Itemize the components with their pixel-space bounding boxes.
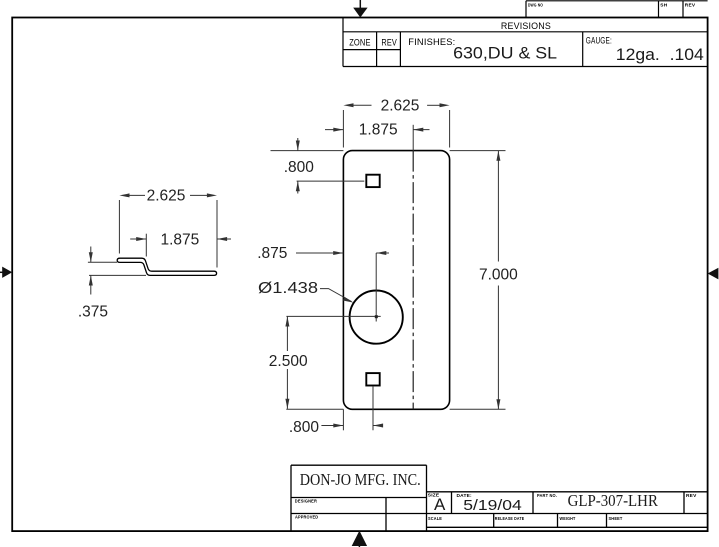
svg-text:.800: .800 (289, 419, 320, 436)
circle center dot (375, 315, 378, 318)
svg-text:PART NO.: PART NO. (537, 493, 557, 499)
plate bottom edge extension left (286, 408, 343, 410)
svg-text:.875: .875 (257, 245, 287, 262)
svg-text:DWG NO: DWG NO (528, 3, 543, 9)
svg-text:7.000: 7.000 (479, 266, 518, 283)
svg-text:SHEET: SHEET (609, 516, 623, 522)
svg-text:REV: REV (686, 493, 697, 499)
svg-text:RELEASE DATE: RELEASE DATE (495, 516, 525, 522)
svg-text:SH: SH (660, 3, 667, 9)
bottom square hole (366, 373, 379, 385)
dimension Ø1.438 leader (320, 289, 354, 303)
circle center cross horizontal (286, 315, 380, 317)
svg-text:REV: REV (381, 38, 397, 49)
dimension 2.625 (profile) (119, 193, 217, 267)
svg-text:ZONE: ZONE (349, 38, 371, 49)
svg-text:1.875: 1.875 (359, 121, 398, 138)
registration arrow top (353, 0, 367, 18)
top strip dwg-no/sh/rev (526, 1, 708, 18)
svg-text:REVISIONS: REVISIONS (501, 21, 551, 32)
circle hole Ø1.438 (350, 291, 403, 344)
dimension 2.500 (285, 316, 289, 409)
svg-text:.375: .375 (78, 303, 108, 320)
svg-text:Ø1.438: Ø1.438 (258, 280, 318, 297)
revisions table text (349, 21, 704, 64)
revisions table (343, 18, 708, 67)
dimension .375 (profile) (88, 247, 146, 295)
plate centerline (dash-dot) (412, 151, 414, 410)
svg-text:WEIGHT: WEIGHT (560, 516, 576, 522)
svg-text:2.500: 2.500 (269, 353, 308, 370)
svg-text:DON-JO MFG. INC.: DON-JO MFG. INC. (300, 470, 421, 489)
svg-text:5/19/04: 5/19/04 (463, 497, 521, 514)
title block labels (295, 492, 697, 522)
plate bottom edge extension right (450, 408, 506, 410)
svg-text:2.625: 2.625 (381, 98, 420, 115)
svg-text:GAUGE:: GAUGE: (586, 35, 612, 46)
dimension .800 (main bottom) (321, 386, 383, 430)
svg-text:GLP-307-LHR: GLP-307-LHR (568, 491, 658, 510)
registration arrow right (708, 268, 719, 280)
registration arrow left (0, 267, 12, 278)
svg-text:1.875: 1.875 (161, 231, 200, 248)
plate top edge extension right (450, 150, 506, 152)
plate top edge extension left (271, 150, 344, 152)
dimension .875 (to circle center) (296, 251, 389, 255)
dimension 1.875 (main top) (325, 125, 430, 151)
svg-text:SCALE: SCALE (428, 516, 442, 522)
top strip labels (528, 3, 696, 9)
dimension 2.625 (main top) (343, 103, 449, 147)
dimension .800 (main top-left) (296, 138, 365, 194)
svg-text:12ga. .104: 12ga. .104 (616, 45, 704, 64)
svg-text:2.625: 2.625 (147, 188, 186, 205)
title block outer lines (291, 465, 708, 531)
profile view sheet outline (117, 258, 216, 275)
registration arrow bottom (352, 531, 367, 547)
svg-text:DESIGNER: DESIGNER (295, 499, 318, 505)
svg-text:A: A (434, 495, 446, 514)
main view: plate outline (343, 151, 449, 410)
top square hole (366, 175, 379, 187)
dimension 7.000 (496, 151, 500, 410)
svg-text:REV: REV (685, 3, 696, 9)
svg-text:FINISHES:: FINISHES: (408, 37, 455, 48)
svg-text:630,DU & SL: 630,DU & SL (453, 44, 557, 63)
svg-text:APPROVED: APPROVED (295, 515, 319, 521)
svg-text:.800: .800 (284, 159, 315, 176)
circle center cross vertical (375, 253, 377, 322)
dimension 1.875 (profile) (130, 234, 231, 257)
